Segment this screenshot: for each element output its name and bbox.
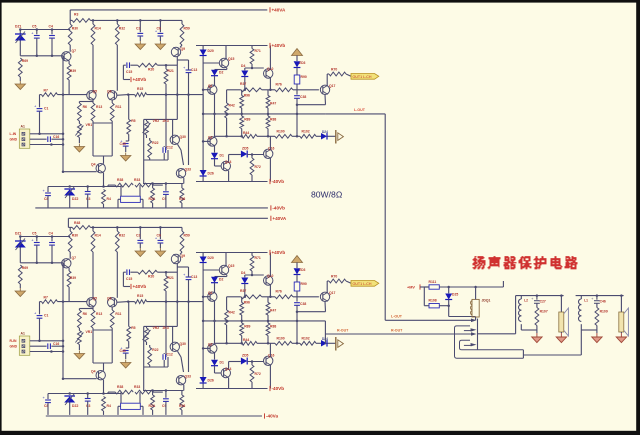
variable resistor VR2 [145,121,149,135]
wire [620,332,622,333]
capacitor C15 [126,62,128,68]
svg-text:R30: R30 [72,26,78,30]
wire [596,303,598,307]
junction [474,286,477,289]
wire [39,111,41,134]
zener diode DZ2 [64,188,75,190]
transistor Q15 [219,58,228,67]
junction [62,138,65,141]
junction [240,113,243,116]
svg-text:R69: R69 [22,59,28,63]
relay contact 2 bracket [460,340,524,350]
wire L-OUT into relay [385,319,471,321]
resistor R21 [164,69,168,84]
wire [146,135,148,138]
wire Q1 base [203,89,210,91]
svg-text:80W/8Ω: 80W/8Ω [311,190,343,200]
wire [69,10,71,21]
wire [125,146,127,152]
junction [596,294,599,297]
wire [181,20,183,24]
power label -40Vb lower [270,205,272,210]
resistor R15 [135,93,147,97]
wire [19,41,21,56]
junction [251,67,254,70]
wire [267,129,269,137]
junction [19,28,22,31]
resistor R42 [225,103,229,118]
resistor R13 [91,103,95,121]
wire Q16 collector [269,136,271,149]
junction [159,19,162,22]
junction [202,113,205,116]
svg-text:R100: R100 [277,130,285,134]
right channel amplifier (copy of left channel) [15,227,379,415]
svg-text:R72: R72 [255,165,261,169]
wire bottom -40Vb rail [196,388,268,390]
box resistor R57 [121,196,141,202]
wire [520,296,522,299]
svg-text:R89: R89 [244,118,250,122]
svg-text:ZD3: ZD3 [299,61,306,65]
svg-text:Q30: Q30 [180,135,187,139]
svg-text:Q33: Q33 [185,168,192,172]
resistor R88 [266,116,270,129]
wire [177,59,188,61]
wire [165,84,167,95]
wire [120,185,122,196]
wire R15 node to output column [147,94,203,96]
wire R-OUT horizontal [325,333,471,335]
wire L-OUT vertical [384,114,386,320]
wire [521,329,537,331]
svg-text:C27: C27 [540,300,546,304]
wire [152,184,154,189]
junction [51,28,54,31]
ground under R69 [19,81,21,84]
ground [596,333,598,337]
wire [251,155,253,159]
resistor R76 [275,88,293,92]
resistor R6 [78,103,82,121]
wire [111,121,113,123]
wire R21 column down [165,95,167,150]
wire [580,324,582,330]
junction [139,226,142,229]
wire +40Vb stub [122,65,124,79]
wire [103,204,105,208]
wire [181,184,183,189]
svg-text:+40VA: +40VA [272,8,287,13]
wire [581,329,597,331]
junction [560,294,563,297]
svg-text:R39: R39 [70,69,76,73]
svg-text:+40Vb: +40Vb [272,250,286,255]
junction [240,135,243,138]
wire bottom node of input block [20,55,63,57]
wire [157,64,177,66]
resistor R26 [180,188,184,203]
svg-text:Q2: Q2 [208,136,213,140]
svg-text:Q5: Q5 [93,89,98,93]
wire [92,121,94,123]
wire [183,178,185,184]
resistor R70 [329,72,346,76]
wire [262,89,275,91]
capacitor C2 [137,32,143,34]
wire [165,194,167,208]
wire [159,36,161,41]
wire [78,138,80,144]
svg-text:GND: GND [10,345,18,349]
diode D1 [211,153,218,159]
wire [68,80,70,95]
wire [292,135,300,137]
wire [51,38,53,56]
wire [140,198,143,200]
wire [202,46,204,182]
wire [423,287,425,306]
resistor R109 [595,308,599,326]
wire [111,123,113,156]
diode D24 [321,133,327,140]
wire [68,61,70,64]
svg-text:C2: C2 [136,26,140,30]
svg-text:-40Va: -40Va [266,414,278,419]
wire [214,76,216,85]
svg-text:C6: C6 [157,26,161,30]
wire [40,133,64,135]
wire [103,173,105,187]
svg-text:D26: D26 [208,172,214,176]
capacitor C13 [186,69,192,71]
wire out2 to right speaker net [523,354,581,356]
box resistor R111 [429,285,439,289]
resistor R5 [127,119,131,134]
svg-text:R11: R11 [115,105,121,109]
box resistor R108 [429,304,439,308]
wire [139,185,141,196]
wire Q14 emitter [228,171,230,182]
svg-text:DZ2: DZ2 [72,197,79,201]
diode D25 [445,294,452,300]
power label shared rail [270,216,272,221]
svg-text:DZ1: DZ1 [15,25,22,29]
resistor R39 [67,64,71,80]
power label +40Vb bottom [269,250,271,255]
svg-text:OUT1 L-CH: OUT1 L-CH [353,75,372,79]
wire [143,119,145,183]
resistor R102 [300,134,316,138]
zener diode ZD3 [294,61,301,67]
wire [214,146,216,153]
wire [69,20,71,24]
wire [36,38,38,56]
wire [69,45,71,52]
junction [92,226,95,229]
junction [225,135,228,138]
svg-text:GND: GND [10,138,18,142]
wire [296,84,298,95]
svg-text:R3: R3 [74,13,78,17]
svg-text:R14: R14 [95,26,101,30]
transistor Q9 [171,47,180,56]
wire Q4 base row [63,171,97,173]
wire [139,36,141,41]
svg-text:Q6: Q6 [107,89,112,93]
wire Q10 emitter [269,78,271,90]
wire [117,199,119,208]
wire [316,135,321,137]
wire [87,194,89,208]
wire [536,303,538,307]
ground under C2 [139,41,141,44]
svg-text:R59: R59 [184,26,190,30]
wire Q15 collector [225,46,227,59]
wire [346,74,351,76]
resistor R69 [18,58,22,77]
transistor Q6 [108,91,117,100]
diode D20 [200,50,207,56]
svg-text:C16: C16 [53,135,59,139]
wire bottom -40Va rail [46,415,262,417]
svg-text:C12: C12 [167,145,173,149]
svg-text:R26: R26 [179,197,185,201]
connector A1 [19,129,30,148]
svg-text:R24: R24 [149,197,155,201]
wire [620,296,622,312]
wire [93,155,112,157]
wire relay out1 [478,333,516,335]
resistor R72 [250,158,254,175]
junction [127,93,130,96]
wire [522,350,524,358]
transistor Q7 [62,52,71,61]
diode D2 [211,70,218,76]
transistor Q2 [208,137,217,146]
svg-text:C15: C15 [126,70,132,74]
wire [51,30,53,35]
yellow output label box [351,74,379,80]
svg-text:R96: R96 [244,94,250,98]
wire [139,20,141,32]
wire [580,295,582,297]
transistor Q33 [176,169,185,178]
wire [92,45,94,91]
svg-text:Q16: Q16 [268,147,275,151]
svg-text:R70: R70 [331,68,337,72]
capacitor C45 [123,143,129,145]
capacitor C4 [49,35,55,37]
resistor R89 [240,116,244,129]
wire [251,64,253,68]
junction [213,113,216,116]
svg-text:L1: L1 [584,299,588,303]
resistor R37 [241,88,262,92]
svg-text:R48: R48 [74,221,80,225]
wire Q17 collector [326,74,328,85]
wire [226,118,228,136]
svg-text:R22: R22 [152,141,158,145]
wire [180,45,182,48]
svg-text:R108: R108 [429,299,437,303]
zener diode DZ1 [15,33,26,35]
wire [328,135,336,137]
wire Q16 emitter [269,158,271,181]
capacitor C3 [85,191,91,193]
ground under C6 [159,41,161,44]
wire right net to bottom wire [580,330,582,355]
wire [560,296,562,312]
wire [116,45,118,91]
wire [244,77,246,90]
svg-text:C45: C45 [120,142,126,146]
zener diode ZD5 [241,151,247,158]
junction [62,133,65,136]
svg-text:Q7: Q7 [72,49,77,53]
relay contact 1 arm [464,330,471,332]
svg-text:R44: R44 [243,131,249,135]
wire VR2 block top [144,118,178,120]
svg-text:R13: R13 [96,105,102,109]
resistor R20 [138,63,158,67]
wire up to left speaker net [515,296,517,334]
wire [226,68,228,70]
wire [111,100,113,103]
svg-text:C1: C1 [44,107,48,111]
svg-text:2K3: 2K3 [163,119,169,123]
wire [69,196,71,208]
wire [214,159,216,166]
junction [159,226,162,229]
svg-text:R15: R15 [137,87,143,91]
junction [447,286,450,289]
svg-text:R-OUT: R-OUT [337,329,349,333]
wire [448,300,450,317]
transistor Q16 [264,149,273,158]
svg-text:R20: R20 [148,68,154,72]
junction [536,294,539,297]
svg-text:A1: A1 [21,125,25,129]
wire [116,94,128,97]
wire [58,94,88,96]
junction [267,135,270,138]
relay contact 2 arrowhead [471,332,477,336]
junction [244,89,247,92]
svg-text:R5: R5 [131,119,135,123]
wire coil bottom [475,317,477,320]
wire [327,73,329,75]
svg-text:R32: R32 [119,26,125,30]
svg-text:R107: R107 [540,310,548,314]
transistor Q1 [208,85,217,94]
svg-text:R-OUT: R-OUT [391,329,403,333]
resistor R3 [72,19,90,23]
svg-text:ZD5: ZD5 [242,147,249,151]
junction [51,55,54,58]
wire [149,138,151,140]
svg-text:C13: C13 [191,68,197,72]
junction [165,93,168,96]
svg-text:R7: R7 [44,88,48,92]
wire [241,90,243,96]
wire [30,138,47,140]
wire [51,138,63,140]
junction [62,170,65,173]
resistor R32 [115,24,119,45]
svg-text:D25: D25 [452,293,458,297]
power label +40VA top [269,7,271,12]
wire [19,30,21,34]
wire [424,305,429,307]
wire [257,135,275,137]
svg-text:L-OUT: L-OUT [354,108,366,112]
wire -40Va rail [35,207,268,209]
power label -40Va bottom [264,413,266,418]
wire main left column [62,56,64,171]
wire [251,46,253,49]
svg-text:L-IN: L-IN [10,132,17,136]
wire [40,94,42,96]
resistor R100 [275,134,292,138]
transistor Q17 [320,85,329,94]
junction [296,103,299,106]
wire [128,95,130,120]
junction [165,182,168,185]
wire [439,305,448,307]
variable resistor VR1 [78,124,82,138]
wire [47,187,49,193]
resistor R30 [68,24,72,45]
svg-text:Q15: Q15 [228,57,235,61]
resistor R7 [42,93,58,97]
wire [107,185,109,186]
junction [296,113,299,116]
wire [92,20,94,24]
wire [63,55,64,57]
wire [146,119,148,121]
wire [560,332,562,333]
wire [165,65,167,69]
resistor R71 [250,49,254,65]
left channel amplifier group [15,20,379,208]
svg-text:D24: D24 [322,130,328,134]
wire +40Vb rail [196,45,268,47]
svg-text:L2: L2 [524,299,528,303]
wire Q17 emitter [324,95,327,105]
wire R44 row [215,135,243,137]
capacitor C6 [158,32,164,34]
wire L-OUT horizontal [325,113,385,115]
wire coil top [475,287,477,299]
wire second rail start [70,19,72,21]
junction [202,140,205,143]
svg-text:C4: C4 [49,25,53,29]
wire [79,101,93,103]
resistor R59 [180,24,184,45]
power label -40Vb [269,179,271,184]
junction [116,19,119,22]
wire [202,95,204,114]
svg-text:-40Vb: -40Vb [272,206,285,211]
wire [167,150,169,160]
wire bottom second rail [91,226,183,228]
resistor R33 [135,183,153,187]
svg-text:R21: R21 [168,69,174,73]
wire [215,69,227,71]
junction [68,185,71,188]
wire stub up [502,281,504,287]
